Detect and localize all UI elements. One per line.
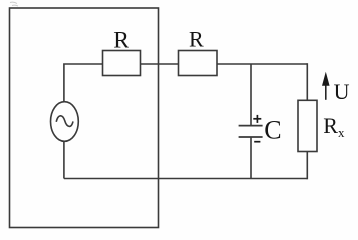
- resistor R2: [179, 51, 218, 76]
- wire source bottom: [63, 141, 65, 179]
- wire bottom return: [64, 178, 307, 180]
- svg-text:Rx: Rx: [323, 113, 345, 140]
- wire R1 to R2: [141, 63, 179, 65]
- wire from source top to R1: [64, 64, 103, 102]
- wire capacitor top branch: [250, 64, 252, 126]
- capacitor polarity minus sign: [254, 141, 260, 143]
- voltage arrow U: [323, 75, 329, 100]
- wire right corner down to Rx: [306, 63, 308, 100]
- source enclosure box: [10, 8, 159, 228]
- AC source G1: [51, 102, 79, 142]
- resistor Rx: [298, 100, 317, 151]
- wire R2 to right corner: [217, 63, 307, 65]
- svg-text:R: R: [113, 27, 129, 53]
- capacitor polarity plus sign: [253, 115, 261, 123]
- svg-text:U: U: [334, 79, 350, 104]
- svg-text:C: C: [264, 115, 281, 144]
- wire capacitor bottom to return: [250, 137, 252, 179]
- faint scan smudge top-left: [10, 2, 18, 6]
- wire Rx bottom to return: [306, 152, 308, 180]
- capacitor C plates: [239, 126, 263, 137]
- resistor R1: [103, 51, 141, 76]
- svg-text:R: R: [189, 27, 204, 52]
